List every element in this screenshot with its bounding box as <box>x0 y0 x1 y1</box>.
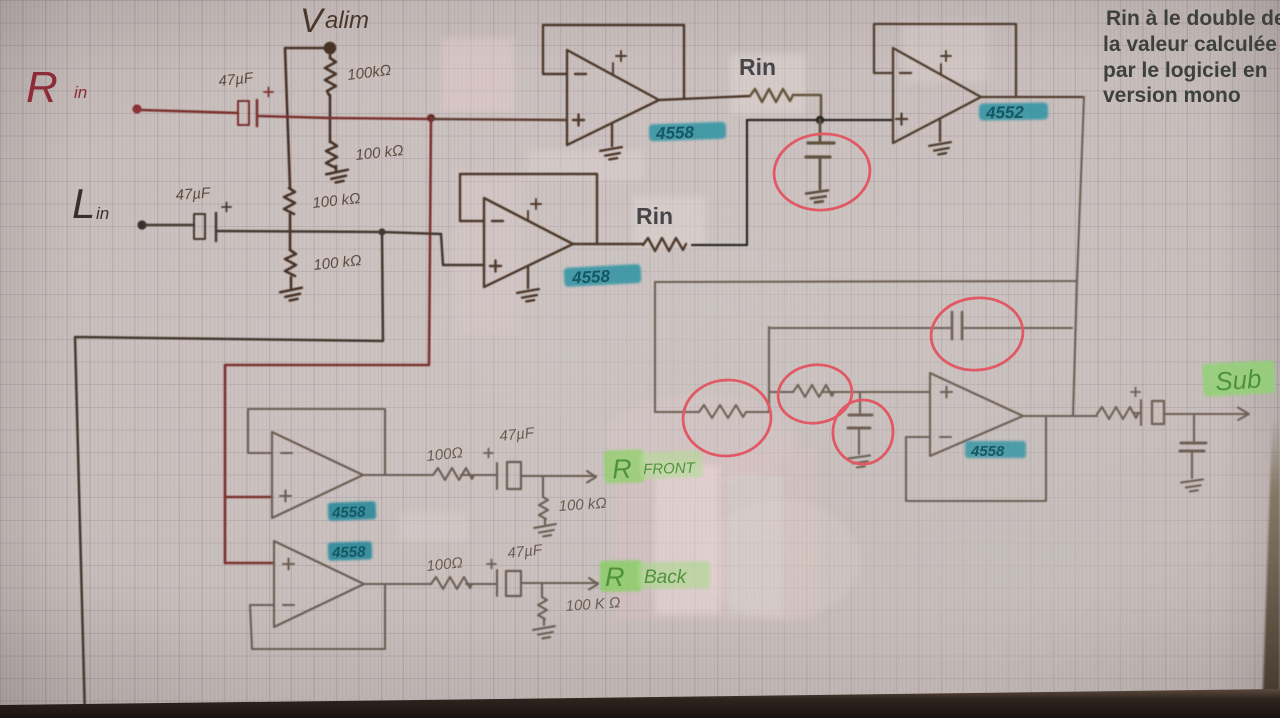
svg-text:R: R <box>605 562 625 592</box>
svg-text:FRONT: FRONT <box>643 459 697 478</box>
svg-text:in: in <box>96 204 109 223</box>
svg-text:la valeur calculée: la valeur calculée <box>1103 33 1277 56</box>
svg-text:100 kΩ: 100 kΩ <box>312 190 362 212</box>
svg-text:4558: 4558 <box>571 267 611 288</box>
svg-text:par le logiciel en: par le logiciel en <box>1103 59 1268 82</box>
svg-text:R: R <box>26 63 58 112</box>
svg-text:Rin à le double de: Rin à le double de <box>1106 7 1280 30</box>
svg-text:47µF: 47µF <box>507 541 544 562</box>
svg-text:Rin: Rin <box>739 54 776 80</box>
svg-text:Back: Back <box>644 567 688 588</box>
svg-text:L: L <box>72 180 95 227</box>
svg-text:alim: alim <box>325 7 369 34</box>
svg-text:4558: 4558 <box>331 504 367 522</box>
svg-text:V: V <box>300 2 326 40</box>
svg-text:4558: 4558 <box>970 443 1005 460</box>
svg-text:R: R <box>612 454 633 485</box>
svg-text:in: in <box>74 83 87 102</box>
svg-text:4552: 4552 <box>985 103 1025 123</box>
svg-text:100 kΩ: 100 kΩ <box>313 252 363 274</box>
svg-text:version mono: version mono <box>1103 84 1241 107</box>
svg-text:47µF: 47µF <box>499 424 536 445</box>
svg-text:4558: 4558 <box>655 123 695 143</box>
svg-text:Sub: Sub <box>1214 363 1262 396</box>
svg-text:100Ω: 100Ω <box>426 554 464 575</box>
svg-text:4558: 4558 <box>331 543 367 561</box>
svg-text:100Ω: 100Ω <box>426 444 464 465</box>
svg-text:100 kΩ: 100 kΩ <box>558 495 607 515</box>
svg-text:100kΩ: 100kΩ <box>346 62 392 84</box>
svg-text:47µF: 47µF <box>175 185 211 204</box>
svg-text:100 kΩ: 100 kΩ <box>355 142 405 164</box>
svg-text:Rin: Rin <box>636 203 673 229</box>
svg-text:47µF: 47µF <box>218 69 255 90</box>
svg-text:100 K Ω: 100 K Ω <box>565 594 621 615</box>
